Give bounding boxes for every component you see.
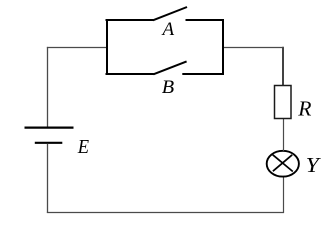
label E	[77, 136, 89, 158]
svg-text:R: R	[297, 96, 311, 120]
lamp Y	[267, 151, 299, 177]
wire resistor up to top-right corner	[282, 47, 284, 86]
wire right vertical (bottom wire up to lamp)	[283, 176, 285, 213]
wire lamp to resistor	[283, 118, 285, 151]
parallel box right vertical	[222, 19, 224, 75]
battery E	[25, 128, 74, 143]
wire left horizontal (battery to parallel box)	[47, 47, 107, 49]
label Y	[306, 153, 322, 177]
svg-text:B: B	[162, 77, 175, 98]
wire left vertical (down to battery + plate)	[47, 47, 49, 128]
svg-text:E: E	[77, 136, 89, 158]
wire bottom horizontal	[47, 212, 284, 214]
parallel box left vertical	[106, 19, 108, 75]
switch A	[106, 7, 224, 20]
switch B	[106, 61, 224, 74]
label A	[161, 19, 175, 40]
label R	[297, 96, 311, 120]
resistor R	[275, 86, 292, 119]
svg-text:Y: Y	[306, 153, 322, 177]
wire right horizontal (parallel box to right corner)	[223, 47, 285, 49]
wire battery negative down	[47, 144, 49, 214]
label B	[162, 77, 175, 98]
svg-text:A: A	[161, 19, 175, 40]
